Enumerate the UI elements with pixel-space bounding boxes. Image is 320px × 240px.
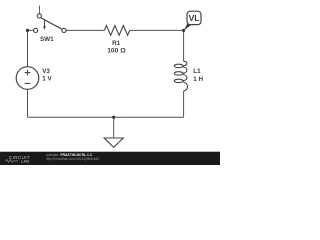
svg-text:V3: V3 — [42, 68, 50, 75]
svg-text:SW1: SW1 — [40, 36, 54, 43]
svg-text:http​://circuitlab.com/c9v43y5: http​://circuitlab.com/c9v43y5k9zk30 — [46, 157, 100, 161]
svg-text:100 Ω: 100 Ω — [107, 47, 126, 54]
svg-text:R1: R1 — [112, 40, 121, 47]
svg-text:VL: VL — [189, 13, 200, 23]
svg-text:LAB: LAB — [21, 158, 29, 163]
svg-text:L1: L1 — [193, 68, 201, 75]
svg-text:1 H: 1 H — [193, 76, 203, 83]
svg-text:1 V: 1 V — [42, 75, 52, 82]
